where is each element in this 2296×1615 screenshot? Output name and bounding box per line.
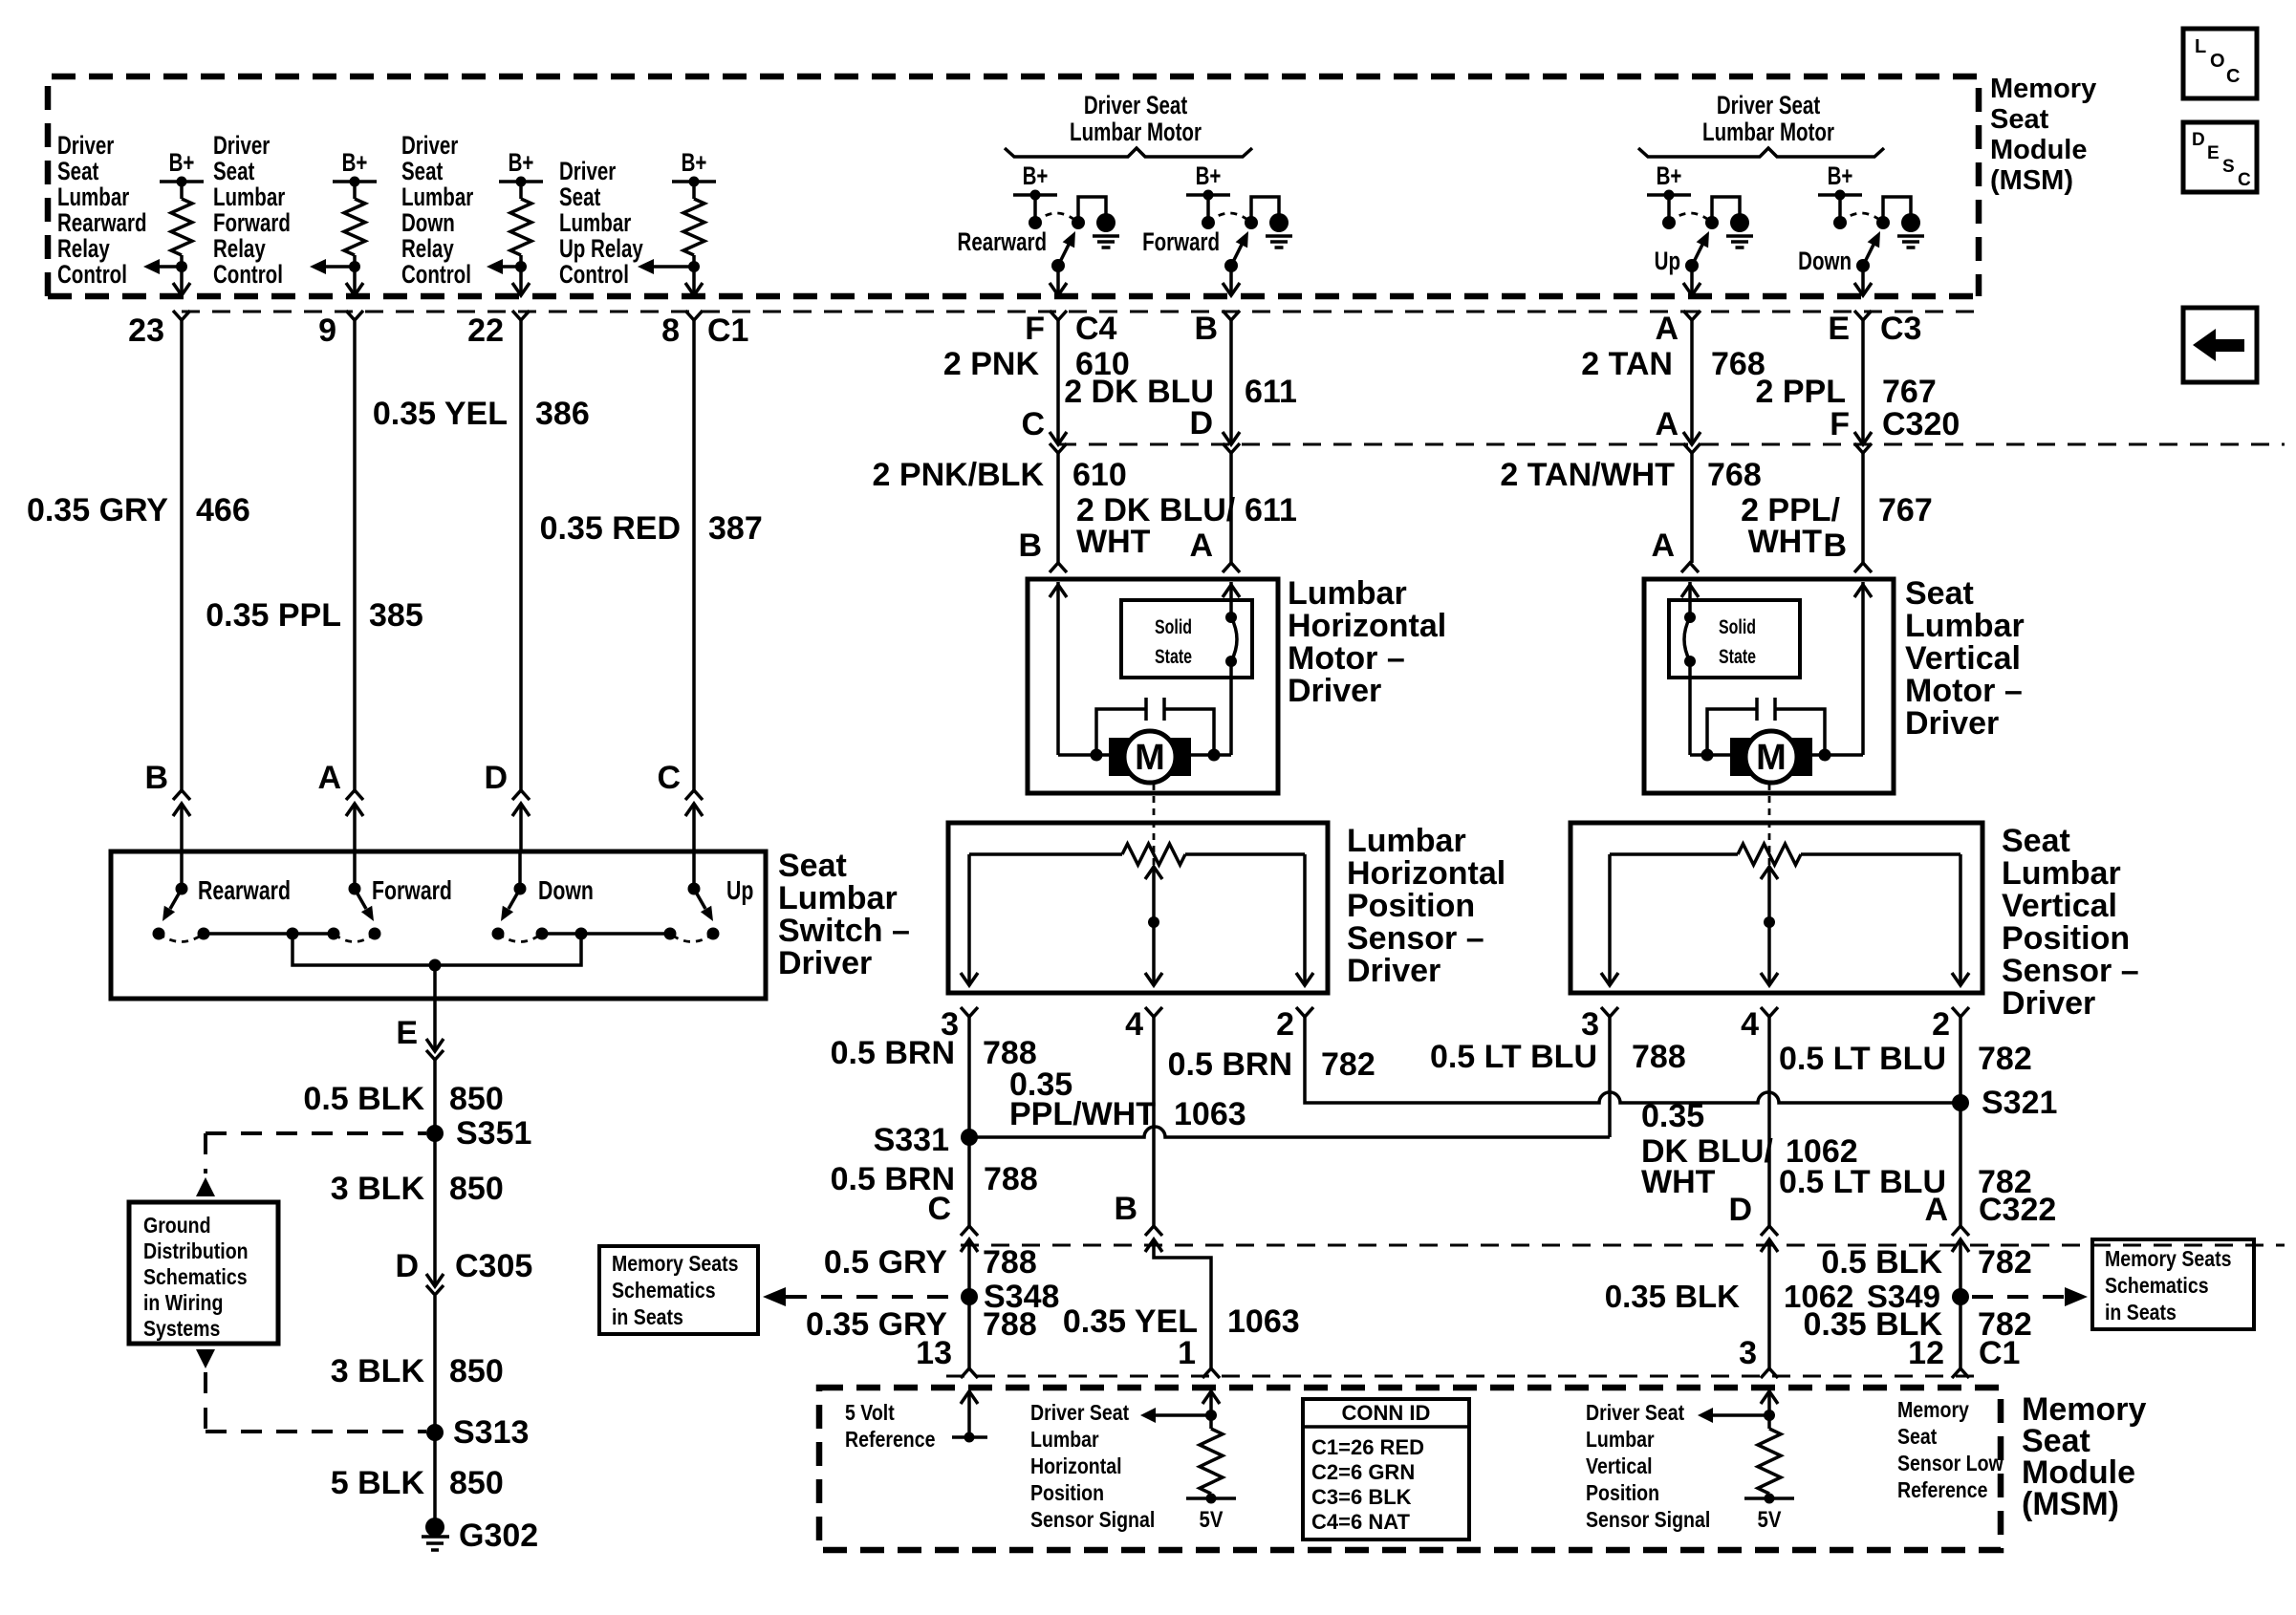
svg-text:CONN ID: CONN ID (1342, 1401, 1431, 1425)
relay forward switch arm (1231, 243, 1243, 266)
svg-text:D: D (2192, 130, 2205, 150)
driver seat lumbar horizontal position sensor signal input (1202, 1391, 1220, 1404)
DESC reference box (2183, 122, 2257, 192)
svg-text:8: 8 (661, 312, 680, 349)
svg-text:0.5 BLK: 0.5 BLK (1821, 1244, 1942, 1281)
svg-text:C1=26 RED: C1=26 RED (1311, 1435, 1424, 1459)
svg-text:Horizontal: Horizontal (1347, 855, 1505, 892)
svg-text:0.5 GRY: 0.5 GRY (824, 1244, 947, 1281)
relay down switch arm (1863, 243, 1874, 266)
connector C1 crossing (346, 283, 363, 295)
svg-text:Driver: Driver (401, 131, 458, 160)
svg-text:5V: 5V (1758, 1506, 1782, 1532)
svg-text:12: 12 (1908, 1335, 1944, 1371)
sensor pin claw (1145, 1007, 1162, 1017)
inline connector D (512, 790, 530, 800)
svg-text:Schematics: Schematics (2105, 1274, 2209, 1299)
svg-text:Sensor Low: Sensor Low (1897, 1452, 2004, 1476)
svg-text:Seat: Seat (401, 157, 443, 185)
connector C1 crossing (512, 283, 530, 295)
svg-text:3: 3 (1739, 1335, 1757, 1371)
svg-text:Driver Seat: Driver Seat (1084, 91, 1187, 119)
svg-text:768: 768 (1707, 457, 1762, 493)
motor entry claw (1050, 563, 1067, 572)
svg-text:Down: Down (1798, 247, 1852, 275)
svg-text:C305: C305 (455, 1248, 532, 1284)
svg-text:0.35 GRY: 0.35 GRY (27, 492, 168, 528)
thin dashed connector line C1 (182, 311, 1979, 313)
svg-text:Motor –: Motor – (1905, 673, 2023, 709)
switch up (692, 851, 696, 889)
svg-text:C: C (927, 1191, 951, 1227)
svg-text:B+: B+ (509, 148, 534, 177)
svg-text:Lumbar: Lumbar (1030, 1428, 1099, 1453)
svg-text:A: A (1189, 528, 1213, 564)
control output arrow (317, 265, 355, 269)
svg-text:State: State (1719, 645, 1756, 668)
svg-text:850: 850 (449, 1465, 504, 1501)
svg-text:Position: Position (1030, 1481, 1104, 1506)
svg-text:C: C (657, 760, 681, 796)
svg-text:B+: B+ (1023, 161, 1049, 190)
svg-text:Driver: Driver (57, 131, 114, 160)
brace left (1005, 148, 1252, 157)
svg-text:in Seats: in Seats (2105, 1301, 2177, 1325)
motor internal entry arrow (1681, 585, 1699, 597)
sensor pin claw (1296, 1007, 1313, 1017)
wire circuit 466 (180, 320, 184, 790)
solid state switch arc (1229, 582, 1233, 613)
svg-text:M: M (1756, 738, 1787, 778)
splice S321 (1952, 1094, 1969, 1111)
wire resistor to module edge (692, 255, 696, 295)
connector crossing C seat harness (961, 1226, 978, 1236)
svg-text:Sensor –: Sensor – (2002, 953, 2139, 989)
svg-text:Schematics: Schematics (143, 1265, 248, 1290)
svg-text:C2=6 GRN: C2=6 GRN (1311, 1460, 1415, 1484)
svg-text:F: F (1025, 311, 1045, 347)
svg-text:Lumbar Motor: Lumbar Motor (1702, 118, 1834, 146)
svg-text:850: 850 (449, 1171, 504, 1207)
svg-text:Lumbar: Lumbar (559, 208, 631, 237)
svg-text:0.5 LT BLU: 0.5 LT BLU (1779, 1164, 1946, 1200)
wire 788 left pin3 (967, 1020, 971, 1226)
svg-text:1063: 1063 (1174, 1096, 1246, 1132)
Memory Seats Schematics in Seats box (right) (2092, 1239, 2254, 1329)
relay down output wire (1861, 266, 1865, 295)
connector C1 crossing (173, 283, 190, 295)
svg-text:Driver Seat: Driver Seat (1030, 1401, 1129, 1426)
solid state box (1121, 600, 1252, 678)
svg-text:Seat: Seat (213, 157, 254, 185)
svg-text:Driver: Driver (778, 945, 872, 981)
svg-text:B: B (144, 760, 168, 796)
svg-text:O: O (2210, 51, 2225, 72)
relay up switch arm (1692, 243, 1703, 266)
LOC reference box (2183, 29, 2257, 98)
net 788 bus S331 to right sensor pin 3 (969, 1127, 1610, 1137)
solid state box (1669, 600, 1800, 678)
inline connector A (346, 790, 363, 800)
connector claw MSM C1 pin at x=1851 (1761, 1368, 1778, 1378)
wires to motor brushes (1812, 753, 1863, 757)
control output arrow (151, 265, 182, 269)
svg-text:386: 386 (535, 396, 590, 432)
motor M symbol (1109, 738, 1130, 776)
svg-text:B+: B+ (1196, 161, 1222, 190)
connector C320 crossing (1683, 432, 1700, 444)
svg-text:2 TAN: 2 TAN (1581, 346, 1673, 382)
inline connector B (173, 790, 190, 800)
sensor wiper (1145, 867, 1162, 879)
svg-text:788: 788 (983, 1244, 1037, 1281)
svg-text:S351: S351 (456, 1115, 531, 1152)
wire 1062 right pin4 (1767, 1020, 1771, 1226)
svg-text:Horizontal: Horizontal (1288, 608, 1446, 644)
relay rearward switch arm (1058, 243, 1070, 266)
wire 610 lower (1056, 453, 1060, 563)
svg-text:A: A (317, 760, 341, 796)
motor internal entry arrow (1854, 585, 1872, 597)
svg-text:Lumbar: Lumbar (1288, 575, 1407, 612)
svg-text:C1: C1 (707, 312, 748, 349)
svg-text:23: 23 (128, 312, 164, 349)
relay up output wire (1690, 266, 1694, 295)
svg-text:22: 22 (467, 312, 504, 349)
relay forward NC contact to ground (1251, 197, 1279, 223)
relay forward output wire (1229, 266, 1233, 295)
svg-text:C4=6 NAT: C4=6 NAT (1311, 1510, 1410, 1534)
svg-text:0.35 YEL: 0.35 YEL (373, 396, 508, 432)
svg-text:C4: C4 (1075, 311, 1117, 347)
ground symbol (1093, 234, 1119, 238)
Ground Distribution reference box (129, 1202, 278, 1344)
Memory Seat Module (MSM) top dashed box (48, 76, 1979, 296)
svg-text:B: B (1114, 1191, 1137, 1227)
svg-text:E: E (1828, 311, 1850, 347)
svg-text:Seat: Seat (1897, 1425, 1937, 1450)
svg-text:Distribution: Distribution (143, 1239, 249, 1264)
svg-text:2 PNK: 2 PNK (943, 346, 1040, 382)
Lumbar Horizontal motor box (1028, 579, 1278, 793)
motor internal entry arrow (1223, 585, 1240, 597)
svg-text:Memory: Memory (1990, 74, 2096, 104)
svg-text:Ground: Ground (143, 1214, 211, 1238)
wire circuit 386 (519, 320, 523, 790)
svg-text:Lumbar: Lumbar (57, 183, 129, 211)
svg-text:C: C (1021, 406, 1045, 442)
svg-text:C322: C322 (1979, 1192, 2056, 1228)
position sensor box (1570, 823, 1982, 993)
dashed mechanical link to position sensor (1768, 784, 1771, 917)
svg-text:Down: Down (538, 875, 594, 906)
svg-text:Lumbar: Lumbar (1347, 823, 1466, 859)
svg-text:385: 385 (369, 597, 423, 634)
svg-text:D: D (484, 760, 508, 796)
svg-text:(MSM): (MSM) (2022, 1486, 2119, 1522)
svg-text:Systems: Systems (143, 1317, 220, 1342)
svg-text:782: 782 (1321, 1046, 1375, 1083)
svg-text:Position: Position (2002, 920, 2130, 957)
svg-text:D: D (1189, 405, 1213, 441)
svg-text:Solid: Solid (1155, 615, 1192, 638)
switch rearward arc (159, 934, 204, 942)
svg-text:Position: Position (1347, 888, 1475, 924)
5 volt reference input (961, 1391, 978, 1404)
relay up NC contact to ground (1712, 197, 1740, 223)
svg-text:3 BLK: 3 BLK (331, 1353, 425, 1389)
svg-text:B+: B+ (1828, 161, 1853, 190)
svg-text:Horizontal: Horizontal (1030, 1454, 1122, 1479)
svg-text:S331: S331 (874, 1122, 949, 1158)
motor suppression capacitor (1773, 698, 1777, 721)
connector C320 crossing (1050, 432, 1067, 444)
svg-text:1: 1 (1178, 1335, 1196, 1371)
svg-text:Module: Module (1990, 135, 2088, 165)
wire 610 upper (1056, 320, 1060, 443)
relay rearward output wire (1056, 266, 1060, 295)
wire 768 upper (1690, 320, 1694, 443)
svg-text:Lumbar: Lumbar (401, 183, 473, 211)
svg-text:0.35 BLK: 0.35 BLK (1605, 1279, 1740, 1314)
solid state switch arc (1688, 582, 1692, 613)
svg-text:0.35 PPL: 0.35 PPL (206, 597, 341, 634)
svg-text:0.5 BLK: 0.5 BLK (303, 1081, 424, 1117)
inline connector C (685, 790, 703, 800)
svg-text:Vertical: Vertical (1905, 640, 2021, 677)
svg-text:Lumbar: Lumbar (213, 183, 285, 211)
svg-text:5V: 5V (1200, 1506, 1224, 1532)
svg-text:Control: Control (213, 260, 283, 289)
relay rearward NC contact to ground (1078, 197, 1106, 223)
sensor resistor track (969, 852, 1122, 856)
svg-text:782: 782 (1978, 1041, 2032, 1077)
motor entry claw (1854, 563, 1872, 572)
svg-text:C1: C1 (1979, 1335, 2020, 1371)
connector claw MSM C1 pin at x=1014 (961, 1368, 978, 1378)
svg-text:Control: Control (559, 260, 629, 289)
connector claw MSM C1 pin at x=2051 (1952, 1368, 1969, 1378)
svg-text:0.5 LT BLU: 0.5 LT BLU (1779, 1041, 1946, 1077)
svg-text:Solid: Solid (1719, 615, 1756, 638)
svg-text:0.35 RED: 0.35 RED (540, 510, 681, 547)
svg-text:Seat: Seat (778, 848, 847, 884)
svg-text:0.5 BRN: 0.5 BRN (1168, 1046, 1292, 1083)
resistor down relay control (510, 199, 531, 255)
splice S348 (961, 1288, 978, 1305)
motor internal entry arrow (1050, 585, 1067, 597)
svg-text:788: 788 (1632, 1039, 1686, 1075)
wire 768 lower (1690, 453, 1694, 563)
svg-text:Rearward: Rearward (958, 227, 1047, 256)
sensor pin claw (1601, 1007, 1618, 1017)
splice S349 (1952, 1288, 1969, 1305)
svg-text:C320: C320 (1882, 406, 1960, 442)
svg-text:Rearward: Rearward (198, 875, 291, 906)
thin dashed connector line seats (961, 1244, 2285, 1247)
ground G302 (425, 1518, 444, 1537)
svg-text:Memory: Memory (1897, 1398, 1969, 1423)
motor entry claw (1223, 563, 1240, 572)
dashed link box to S313 (196, 1349, 215, 1368)
svg-text:Driver Seat: Driver Seat (1586, 1401, 1684, 1426)
svg-text:Driver: Driver (213, 131, 270, 160)
svg-text:1063: 1063 (1227, 1303, 1300, 1340)
svg-text:788: 788 (983, 1306, 1037, 1343)
svg-text:4: 4 (1125, 1006, 1143, 1043)
svg-text:B+: B+ (169, 148, 195, 177)
Memory Seats Schematics in Seats box (left) (599, 1246, 758, 1334)
svg-text:Seat: Seat (1905, 575, 1974, 612)
svg-text:S321: S321 (1982, 1085, 2057, 1121)
svg-text:E: E (396, 1015, 418, 1051)
svg-text:Sensor –: Sensor – (1347, 920, 1484, 957)
splice S331 (961, 1129, 978, 1146)
wire 611 lower (1229, 453, 1233, 563)
svg-text:Driver Seat: Driver Seat (1717, 91, 1820, 119)
ground symbol (1266, 234, 1292, 238)
splice S351 (426, 1125, 444, 1142)
svg-text:Position: Position (1586, 1481, 1659, 1506)
svg-text:2: 2 (1276, 1006, 1294, 1043)
switch output E wire (433, 965, 437, 1051)
svg-text:5 BLK: 5 BLK (331, 1465, 425, 1501)
control output arrow (494, 265, 521, 269)
switch rearward (180, 851, 184, 889)
switch common bus (204, 932, 334, 936)
svg-text:D: D (1728, 1192, 1752, 1228)
svg-text:850: 850 (449, 1081, 504, 1117)
svg-text:B: B (1194, 311, 1218, 347)
relay down NC contact to ground (1883, 197, 1911, 223)
svg-text:5 Volt: 5 Volt (845, 1401, 895, 1426)
svg-text:Reference: Reference (845, 1428, 936, 1453)
svg-text:C: C (2226, 66, 2240, 87)
resistor forward relay control (344, 199, 365, 255)
Seat Lumbar Switch box (111, 851, 766, 999)
back arrow box (2183, 308, 2257, 382)
svg-text:WHT: WHT (1641, 1164, 1716, 1200)
svg-text:S: S (2222, 157, 2235, 177)
svg-text:Down: Down (401, 208, 455, 237)
svg-text:C3: C3 (1880, 311, 1921, 347)
svg-text:Seat: Seat (1990, 104, 2049, 135)
svg-text:Sensor Signal: Sensor Signal (1030, 1508, 1155, 1533)
wire 782 right pin2 (1959, 1020, 1962, 1226)
svg-text:in Wiring: in Wiring (143, 1291, 223, 1316)
svg-text:Seat: Seat (57, 157, 98, 185)
svg-text:9: 9 (318, 312, 336, 349)
sensor pin claw (1761, 1007, 1778, 1017)
motor suppression capacitor (1144, 698, 1148, 721)
switch forward arc (334, 934, 375, 942)
splice S313 (426, 1424, 444, 1441)
svg-text:Lumbar: Lumbar (2002, 855, 2121, 892)
sensor pin claw (961, 1007, 978, 1017)
svg-text:(MSM): (MSM) (1990, 165, 2073, 196)
svg-text:Reference: Reference (1897, 1478, 1988, 1503)
svg-text:Driver: Driver (2002, 985, 2095, 1022)
svg-text:Forward: Forward (372, 875, 452, 906)
svg-text:M: M (1135, 738, 1165, 778)
thin dashed connector line C320 (1058, 443, 2285, 446)
svg-text:466: 466 (196, 492, 250, 528)
svg-text:State: State (1155, 645, 1192, 668)
svg-text:B+: B+ (682, 148, 707, 177)
relay up contact arc (1669, 213, 1712, 223)
control output arrow (645, 265, 694, 269)
CONN ID table (1303, 1399, 1469, 1540)
svg-text:G302: G302 (459, 1518, 538, 1554)
svg-text:Driver: Driver (1288, 673, 1381, 709)
svg-text:Vertical: Vertical (1586, 1454, 1653, 1479)
svg-text:D: D (395, 1248, 419, 1284)
svg-text:611: 611 (1245, 374, 1297, 410)
connector C320 crossing (1854, 432, 1872, 444)
svg-text:2 PPL: 2 PPL (1756, 374, 1846, 410)
motor M symbol (1791, 738, 1812, 776)
svg-text:0.5 LT BLU: 0.5 LT BLU (1430, 1039, 1597, 1075)
svg-text:C: C (2238, 170, 2251, 190)
switch down arc (498, 934, 542, 942)
svg-text:Memory Seats: Memory Seats (2105, 1247, 2231, 1272)
svg-text:Relay: Relay (401, 234, 454, 263)
svg-text:Up: Up (1655, 247, 1680, 275)
svg-text:Driver: Driver (1905, 705, 1999, 742)
brace right (1638, 148, 1884, 157)
svg-text:Lumbar: Lumbar (1905, 608, 2025, 644)
svg-text:Relay: Relay (57, 234, 110, 263)
svg-text:2 TAN/WHT: 2 TAN/WHT (1500, 457, 1675, 493)
dashed link to memory seats schematics (left) (786, 1295, 957, 1299)
svg-text:Forward: Forward (213, 208, 291, 237)
sensor wiper (1761, 867, 1778, 879)
svg-text:387: 387 (708, 510, 763, 547)
dashed link to memory seats schematics (right) (1972, 1295, 2065, 1299)
svg-text:Seat: Seat (2002, 823, 2070, 859)
svg-text:B: B (1018, 528, 1042, 564)
connector C1 crossing (685, 283, 703, 295)
Seat Lumbar Vertical motor box (1644, 579, 1894, 793)
svg-text:Lumbar: Lumbar (778, 880, 898, 916)
svg-text:WHT: WHT (1076, 524, 1151, 560)
wire 611 upper (1229, 320, 1233, 443)
svg-text:782: 782 (1978, 1244, 2032, 1281)
svg-text:WHT: WHT (1748, 524, 1823, 560)
svg-text:Switch –: Switch – (778, 913, 910, 949)
svg-text:0.5 BRN: 0.5 BRN (831, 1035, 955, 1071)
svg-text:Up Relay: Up Relay (559, 234, 643, 263)
svg-text:Control: Control (401, 260, 471, 289)
svg-text:4: 4 (1741, 1006, 1759, 1043)
svg-text:2 PNK/BLK: 2 PNK/BLK (873, 457, 1045, 493)
svg-text:A: A (1655, 311, 1679, 347)
svg-text:B+: B+ (1657, 161, 1682, 190)
svg-text:Sensor Signal: Sensor Signal (1586, 1508, 1710, 1533)
relay forward contact arc (1208, 213, 1251, 223)
svg-text:S313: S313 (453, 1414, 529, 1451)
switch down (518, 851, 522, 889)
wire 782 left pin2 to S321 (1305, 1020, 1960, 1103)
svg-text:Rearward: Rearward (57, 208, 146, 237)
svg-text:Memory Seats: Memory Seats (612, 1252, 738, 1277)
svg-text:788: 788 (984, 1161, 1038, 1197)
svg-text:Seat: Seat (559, 183, 600, 211)
svg-text:L: L (2195, 36, 2206, 57)
wire resistor to module edge (353, 255, 357, 295)
wire 1063 left pin4 (1154, 1020, 1211, 1368)
wires to motor brushes (1058, 753, 1109, 757)
